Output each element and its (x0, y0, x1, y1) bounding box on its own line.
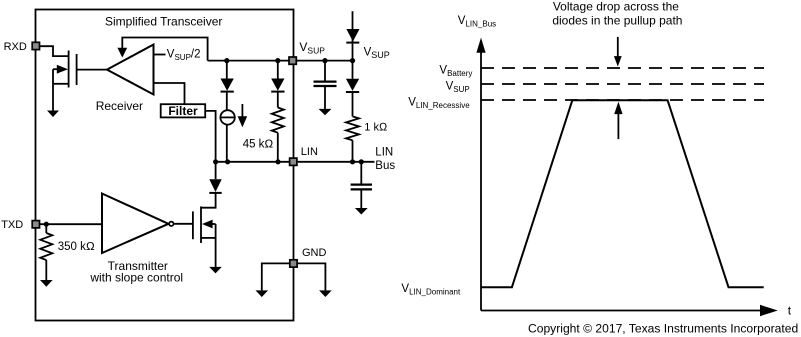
svg-text:Copyright © 2017, Texas Instru: Copyright © 2017, Texas Instruments Inco… (528, 321, 798, 335)
svg-text:TXD: TXD (1, 219, 23, 231)
svg-text:Voltage drop across the: Voltage drop across the (553, 0, 679, 14)
svg-text:RXD: RXD (4, 41, 27, 53)
svg-text:GND: GND (302, 247, 327, 259)
svg-text:Bus: Bus (375, 160, 395, 172)
svg-text:45 kΩ: 45 kΩ (243, 138, 274, 150)
svg-text:LIN: LIN (375, 147, 393, 159)
svg-text:Simplified Transceiver: Simplified Transceiver (105, 14, 222, 28)
svg-text:with slope control: with slope control (89, 271, 183, 285)
svg-text:LIN: LIN (301, 146, 318, 158)
svg-text:350 kΩ: 350 kΩ (58, 241, 95, 253)
svg-text:Receiver: Receiver (96, 99, 143, 113)
svg-text:1 kΩ: 1 kΩ (364, 122, 388, 134)
svg-text:diodes in the pullup path: diodes in the pullup path (552, 14, 682, 28)
svg-text:Filter: Filter (168, 104, 198, 118)
